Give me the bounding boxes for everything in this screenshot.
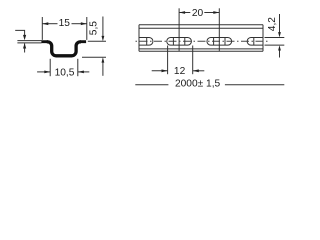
rail hat profile (solid cross-section) (41, 40, 86, 43)
slot 3 (right, cut by rail end) (247, 38, 272, 46)
svg-text:4,2: 4,2 (267, 17, 278, 31)
dimension 12 (slot length) (152, 46, 205, 78)
svg-text:15: 15 (59, 18, 71, 29)
svg-text:12: 12 (174, 66, 186, 77)
svg-text:5,5: 5,5 (89, 21, 100, 35)
dimension 15 (top width) (42, 17, 87, 40)
slot 1 (167, 38, 192, 46)
slot 2 (207, 38, 232, 46)
left flange outline (thin tail of cross-section) (17, 41, 41, 43)
svg-text:10,5: 10,5 (55, 67, 75, 78)
svg-text:2000± 1,5: 2000± 1,5 (175, 79, 221, 90)
dimension 10,5 (channel bottom width) (37, 59, 89, 79)
dimension 4,2 (slot height, right end) (265, 14, 285, 58)
dimension 5,5 (height, right of profile) (82, 17, 106, 76)
dimension 20 (slot pitch) (179, 8, 219, 51)
thickness leader (bent leader with arrows) (15, 30, 26, 52)
slot 0 (left, cut by rail end) (128, 38, 153, 46)
svg-text:20: 20 (192, 8, 204, 19)
rail centre line (dash-dot axis) (134, 40, 269, 42)
rail side view body (top edge, fold lines, bottom edge, ends) (139, 25, 263, 52)
dimension 2000 +/- 1,5 (rail length) (135, 79, 284, 90)
